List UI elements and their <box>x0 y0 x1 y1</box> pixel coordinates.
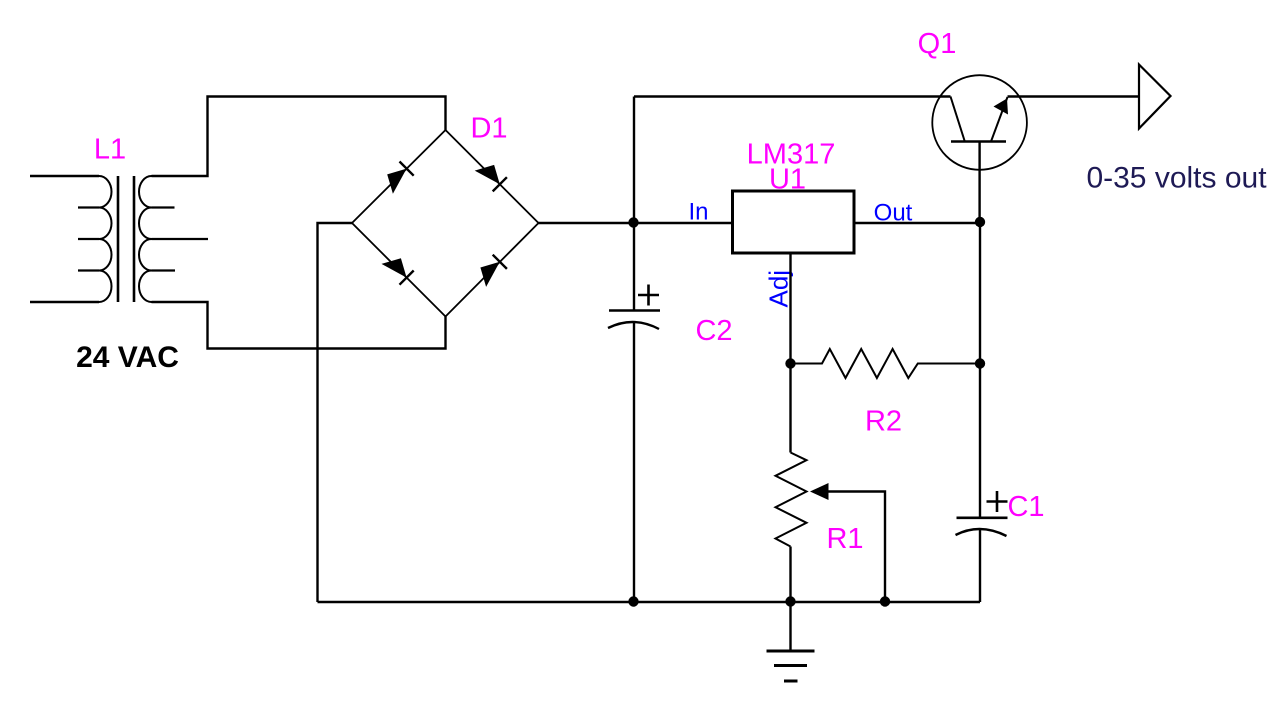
capacitor C2 top plate <box>609 309 660 312</box>
node junction dot Out/base <box>975 217 985 227</box>
transformer L1 primary bottom lead <box>30 301 99 303</box>
capacitor C2 bottom plate <box>608 322 659 329</box>
transformer L1 primary top lead <box>30 175 99 177</box>
ground symbol <box>767 602 815 681</box>
wire main vertical unregulated <box>633 97 635 311</box>
diode D1d bottom-right <box>480 255 507 287</box>
svg-text:24 VAC: 24 VAC <box>76 341 179 374</box>
svg-text:Adj: Adj <box>764 270 794 308</box>
transistor Q1 emitter arrow <box>994 99 1009 115</box>
regulator U1 LM317 box <box>733 191 855 253</box>
node junction dot wiper ground <box>880 596 890 606</box>
capacitor C1 top plate <box>957 516 1008 519</box>
diode D1a top-left <box>387 162 414 194</box>
transistor Q1 base lead <box>978 142 980 223</box>
wire C1 to ground rail <box>979 529 981 603</box>
svg-text:C1: C1 <box>1007 491 1044 523</box>
wire Out node to R2 right <box>979 223 981 364</box>
transformer L1 secondary winding <box>139 176 152 302</box>
transformer L1 secondary center tap <box>152 238 209 240</box>
wire secondary bottom to bridge bottom <box>152 302 446 349</box>
transistor Q1 circle <box>932 75 1027 170</box>
svg-text:U1: U1 <box>769 164 806 196</box>
node junction dot Adj/R2 <box>785 358 795 368</box>
wire C2 to ground rail <box>633 322 635 603</box>
transistor Q1 emitter <box>991 97 1008 142</box>
resistor R2 <box>791 349 981 378</box>
wire bridge right corner to node <box>539 222 635 224</box>
diode D1c bottom-left <box>382 258 414 285</box>
wire R2 to R1 <box>789 364 791 453</box>
wire R2 right to C1 <box>979 364 981 518</box>
output arrow <box>1139 65 1171 129</box>
wire Out <box>854 222 980 224</box>
wire R1 bottom to ground rail <box>789 547 791 603</box>
wire top rail to Q1 collector <box>634 95 951 97</box>
wire secondary top to bridge top <box>152 97 446 177</box>
svg-text:In: In <box>688 199 708 226</box>
svg-text:C2: C2 <box>695 315 732 347</box>
node junction dot bridge output <box>628 217 638 227</box>
potentiometer R1 zigzag <box>776 453 807 547</box>
wire bottom ground rail <box>318 601 981 603</box>
wire Adj lead <box>789 254 791 364</box>
transformer L1 secondary taps <box>152 208 176 271</box>
svg-text:D1: D1 <box>470 113 507 145</box>
transistor Q1 collector <box>951 97 965 142</box>
svg-text:0-35 volts out: 0-35 volts out <box>1086 162 1267 195</box>
node junction dot ground <box>785 596 795 606</box>
svg-text:L1: L1 <box>94 134 126 166</box>
transistor Q1 base bar <box>951 140 1006 143</box>
capacitor C1 plus sign <box>987 491 1008 512</box>
svg-text:R1: R1 <box>826 523 863 555</box>
transformer L1 primary winding <box>99 176 112 302</box>
node junction dot R2 right <box>975 358 985 368</box>
node junction dot C2 ground <box>628 596 638 606</box>
capacitor C1 bottom plate <box>956 529 1007 536</box>
capacitor C2 plus sign <box>638 285 659 306</box>
transformer L1 primary taps <box>78 208 99 271</box>
svg-text:Q1: Q1 <box>918 28 957 60</box>
diode D1b top-right <box>475 165 507 192</box>
wire In <box>634 222 733 224</box>
wire Q1 emitter to output arrow <box>1008 95 1140 97</box>
svg-text:Out: Out <box>874 200 913 227</box>
svg-text:R2: R2 <box>865 406 902 438</box>
potentiometer R1 wiper arrow <box>810 483 885 602</box>
wire bridge left corner to ground rail <box>318 223 353 602</box>
transformer L1 core <box>118 176 134 302</box>
bridge rectifier D1 diamond <box>352 130 539 317</box>
